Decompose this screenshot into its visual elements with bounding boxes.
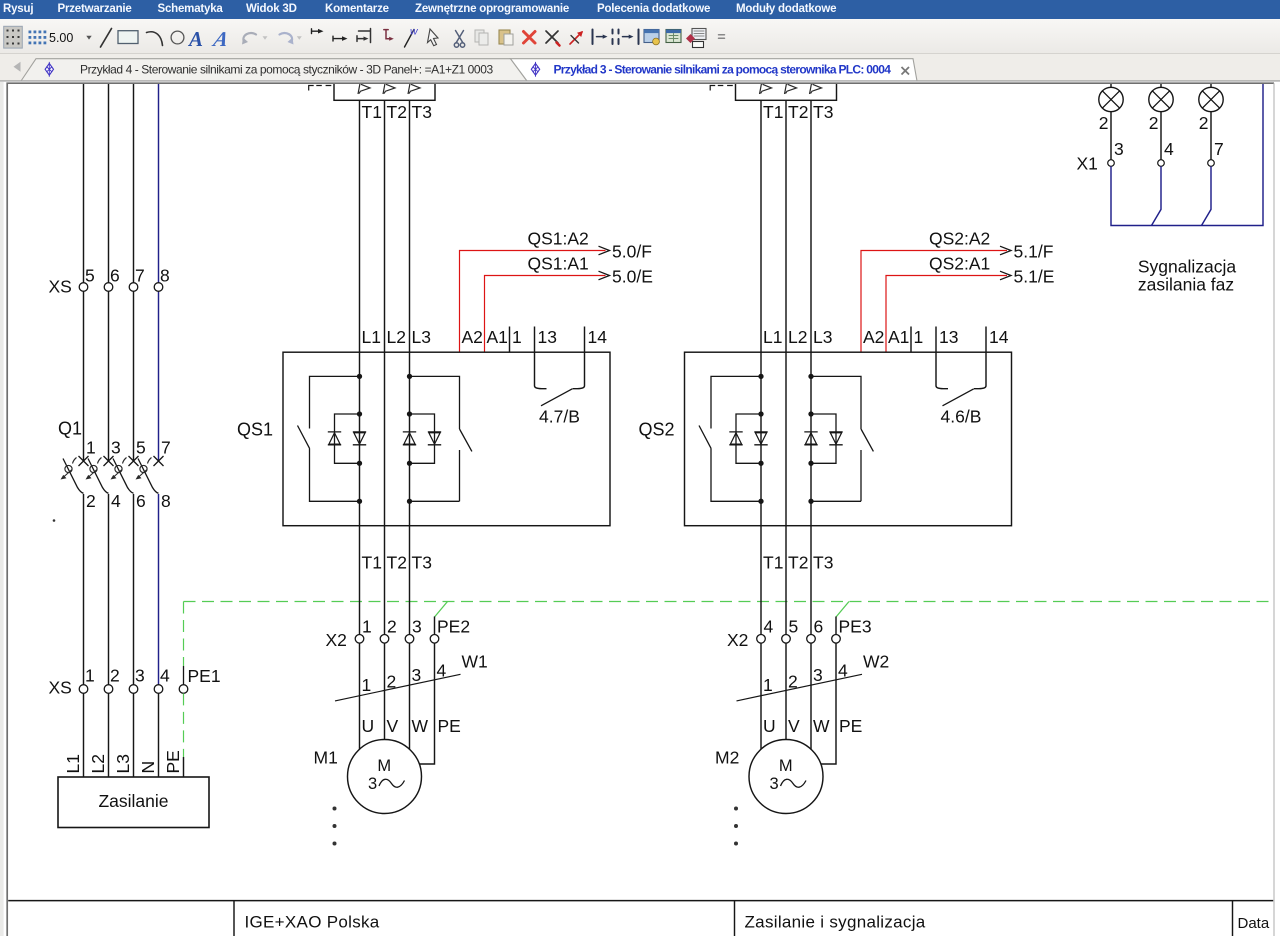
QS1 box <box>283 352 610 526</box>
PE wire (green dashed) vertical to PE1 <box>183 602 185 667</box>
PE bus (green dashed horizontal) <box>184 601 1273 603</box>
svg-text:T3: T3 <box>813 553 833 573</box>
mechanical linkage dashes <box>710 86 733 91</box>
svg-text:5: 5 <box>85 266 95 286</box>
thyristor up (main) <box>403 432 416 445</box>
svg-text:T3: T3 <box>813 102 833 122</box>
wire L2 feeder <box>108 84 110 461</box>
svg-text:L3: L3 <box>412 327 431 347</box>
overload relay box above QS2 <box>736 70 837 100</box>
menu bar <box>0 0 1280 19</box>
overflow chevron <box>719 35 725 38</box>
circle tool <box>171 31 184 44</box>
svg-text:13: 13 <box>939 327 958 347</box>
rectangle tool <box>118 31 138 44</box>
toolbar <box>0 19 1280 54</box>
continuation dots <box>734 807 738 811</box>
svg-text:2: 2 <box>1199 113 1209 133</box>
PE wire to motor <box>419 643 435 764</box>
svg-text:U: U <box>362 716 375 736</box>
Q1 trip release symbol pole 7 <box>140 465 147 472</box>
terminal X1:7 <box>1208 160 1215 167</box>
tab1 scheme icon <box>45 62 53 77</box>
svg-text:4.7/B: 4.7/B <box>539 407 580 427</box>
svg-text:13: 13 <box>538 327 557 347</box>
svg-text:PE1: PE1 <box>188 666 221 686</box>
svg-text:L2: L2 <box>88 754 108 773</box>
PE stub from green bus <box>435 602 448 618</box>
overload release symbol I> <box>785 84 787 95</box>
PE stub from green bus <box>836 602 849 618</box>
svg-text:1: 1 <box>362 616 372 636</box>
wire L1 feeder <box>83 84 85 461</box>
thyristor down (main) <box>353 432 366 445</box>
svg-text:8: 8 <box>160 266 170 286</box>
svg-text:w: w <box>410 26 419 38</box>
signal lamp (pin 3) <box>1110 84 1112 88</box>
lamp wiring (navy) <box>1111 84 1263 226</box>
svg-text:3: 3 <box>412 665 422 685</box>
wire T1 vertical <box>760 100 762 751</box>
svg-text:U: U <box>763 716 776 736</box>
svg-text:X2: X2 <box>727 630 748 650</box>
wire T2 vertical <box>384 100 386 742</box>
svg-text:4.6/B: 4.6/B <box>941 407 982 427</box>
svg-text:X1: X1 <box>1077 154 1098 174</box>
svg-text:2: 2 <box>86 491 96 511</box>
wire T3 vertical <box>409 100 411 751</box>
grid button pressed <box>4 26 23 48</box>
svg-text:A: A <box>209 27 231 51</box>
svg-text:1: 1 <box>512 327 522 347</box>
elbow connector icon <box>384 30 391 39</box>
svg-text:8: 8 <box>161 491 171 511</box>
svg-text:3: 3 <box>813 665 823 685</box>
svg-text:3: 3 <box>770 775 779 793</box>
svg-text:14: 14 <box>989 327 1009 347</box>
svg-text:Zasilanie: Zasilanie <box>98 791 168 811</box>
tabbar bottom edge <box>0 80 1280 82</box>
svg-text:L1: L1 <box>63 754 83 773</box>
svg-text:Q1: Q1 <box>58 419 82 439</box>
svg-text:L2: L2 <box>387 327 406 347</box>
Q1 trip release symbol pole 1 <box>65 465 72 472</box>
svg-text:A: A <box>187 27 203 51</box>
QS2 box <box>685 352 1012 526</box>
coil cross-reference QS2:A2 <box>861 251 1007 353</box>
svg-text:T1: T1 <box>362 553 382 573</box>
svg-text:3: 3 <box>111 438 121 458</box>
inactive tab <box>21 59 527 81</box>
svg-text:2: 2 <box>110 666 120 686</box>
svg-text:QS2:A2: QS2:A2 <box>929 229 990 249</box>
wire T3 vertical <box>810 100 812 751</box>
svg-text:T2: T2 <box>387 102 407 122</box>
svg-text:PE: PE <box>839 716 862 736</box>
svg-text:T3: T3 <box>412 102 432 122</box>
scroll left arrow <box>14 62 21 72</box>
wire N feeder (blue) <box>158 84 160 461</box>
svg-text:2: 2 <box>387 616 397 636</box>
supply box Zasilanie <box>58 777 209 828</box>
copy grayed <box>475 30 484 42</box>
svg-text:M1: M1 <box>314 747 338 767</box>
stretch icon <box>357 29 371 43</box>
overload release symbol I> <box>383 84 385 95</box>
svg-text:3: 3 <box>1114 139 1124 159</box>
svg-text:4: 4 <box>111 491 121 511</box>
tab2 scheme icon <box>531 62 539 77</box>
svg-text:M: M <box>779 757 793 775</box>
wire L3 feeder <box>133 84 135 461</box>
tab close x <box>902 67 910 75</box>
tab bar <box>0 54 1280 81</box>
svg-text:1: 1 <box>362 675 372 695</box>
svg-text:6: 6 <box>110 266 120 286</box>
svg-text:XS: XS <box>49 277 72 297</box>
undo grayed <box>243 33 256 42</box>
thyristor up (branch) <box>328 432 341 445</box>
svg-text:QS1:A1: QS1:A1 <box>528 254 589 274</box>
svg-text:3: 3 <box>135 666 145 686</box>
thyristor up (main) <box>804 432 817 445</box>
svg-text:5.0/E: 5.0/E <box>612 267 653 287</box>
erase X <box>546 31 558 43</box>
redo grayed <box>280 33 293 42</box>
move-right icon (high) <box>312 29 322 34</box>
svg-text:W2: W2 <box>863 652 889 672</box>
svg-text:M2: M2 <box>715 747 739 767</box>
scissors <box>454 31 464 48</box>
coil cross-reference QS1:A1 <box>485 276 606 353</box>
terminal stub 1 <box>509 327 511 353</box>
svg-text:T1: T1 <box>763 102 783 122</box>
svg-text:4: 4 <box>1164 139 1174 159</box>
coil cross-reference QS2:A1 <box>886 276 1007 353</box>
overload release symbol I> <box>760 84 762 95</box>
svg-text:L2: L2 <box>788 327 807 347</box>
signal lamp (pin 4) <box>1160 84 1162 88</box>
overload release symbol I> <box>408 84 410 95</box>
svg-text:3: 3 <box>412 616 422 636</box>
overload release symbol I> <box>358 84 360 95</box>
paste <box>499 30 510 44</box>
svg-text:QS2: QS2 <box>639 420 675 440</box>
active tab <box>511 59 918 81</box>
svg-text:T1: T1 <box>763 553 783 573</box>
svg-text:V: V <box>788 716 800 736</box>
svg-text:M: M <box>377 757 391 775</box>
mechanical linkage dashes <box>309 86 332 91</box>
svg-text:Przykład 4 - Sterowanie silnik: Przykład 4 - Sterowanie silnikami za pom… <box>80 62 493 76</box>
svg-text:T2: T2 <box>788 553 808 573</box>
symbol db icon <box>692 29 706 40</box>
svg-text:A1: A1 <box>888 327 909 347</box>
svg-text:Data: Data <box>1238 915 1270 932</box>
svg-text:T3: T3 <box>412 553 432 573</box>
measure arrow <box>570 32 582 44</box>
svg-text:4: 4 <box>160 666 170 686</box>
svg-text:PE3: PE3 <box>839 616 872 636</box>
svg-text:PE: PE <box>438 716 461 736</box>
svg-text:1: 1 <box>85 666 95 686</box>
svg-text:XS: XS <box>49 678 72 698</box>
svg-text:L1: L1 <box>763 327 782 347</box>
Q1 trip release symbol pole 5 <box>115 465 122 472</box>
svg-text:5.1/F: 5.1/F <box>1014 242 1054 262</box>
svg-text:14: 14 <box>588 327 608 347</box>
svg-text:Zasilanie i sygnalizacja: Zasilanie i sygnalizacja <box>745 913 926 932</box>
QS2 pole B (thyristors + bypass) <box>808 374 813 379</box>
overload relay box above QS1 <box>334 70 435 100</box>
svg-text:V: V <box>387 716 399 736</box>
svg-text:6: 6 <box>814 616 824 636</box>
svg-text:IGE+XAO Polska: IGE+XAO Polska <box>245 913 380 932</box>
svg-text:Przykład 3 - Sterowanie silnik: Przykład 3 - Sterowanie silnikami za pom… <box>554 62 892 76</box>
svg-text:2: 2 <box>1099 113 1109 133</box>
svg-text:4: 4 <box>437 660 447 680</box>
svg-text:PE2: PE2 <box>437 616 470 636</box>
title block frame <box>7 901 1274 936</box>
window icon blue <box>644 30 659 43</box>
svg-text:QS2:A1: QS2:A1 <box>929 254 990 274</box>
svg-text:A1: A1 <box>487 327 508 347</box>
thyristor down (main) <box>754 432 767 445</box>
PE wire to motor <box>820 643 836 764</box>
svg-text:1: 1 <box>763 675 773 695</box>
terminal X1:3 <box>1108 160 1115 167</box>
align prev icon <box>618 30 620 45</box>
svg-text:7: 7 <box>161 438 171 458</box>
svg-text:7: 7 <box>135 266 145 286</box>
svg-text:zasilania faz: zasilania faz <box>1138 275 1234 295</box>
thyristor down (branch) <box>428 432 441 445</box>
align next icon <box>592 30 594 45</box>
QS2 pole A (thyristors + bypass) <box>758 374 763 379</box>
svg-text:A2: A2 <box>462 327 483 347</box>
svg-text:3: 3 <box>368 775 377 793</box>
svg-text:T2: T2 <box>387 553 407 573</box>
terminal X1:4 <box>1158 160 1165 167</box>
svg-text:5: 5 <box>789 616 799 636</box>
terminal stub 1 <box>910 327 912 353</box>
svg-text:L1: L1 <box>362 327 381 347</box>
svg-text:4: 4 <box>764 616 774 636</box>
line tool <box>101 29 112 48</box>
cable W1 <box>335 674 461 701</box>
svg-text:1: 1 <box>914 327 924 347</box>
svg-text:5: 5 <box>136 438 146 458</box>
coil cross-reference QS1:A2 <box>460 251 606 353</box>
thyristor up (branch) <box>729 432 742 445</box>
W pen icon <box>405 30 415 48</box>
svg-text:W: W <box>412 716 429 736</box>
svg-text:L3: L3 <box>813 327 832 347</box>
svg-text:4: 4 <box>838 660 848 680</box>
cable W2 <box>737 674 863 701</box>
QS1 pole A (thyristors + bypass) <box>357 374 362 379</box>
svg-text:T1: T1 <box>362 102 382 122</box>
svg-text:5.00: 5.00 <box>49 31 73 45</box>
overload release symbol I> <box>810 84 812 95</box>
svg-text:5.0/F: 5.0/F <box>612 242 652 262</box>
svg-text:A2: A2 <box>863 327 884 347</box>
svg-text:T2: T2 <box>788 102 808 122</box>
svg-text:7: 7 <box>1214 139 1224 159</box>
svg-text:X2: X2 <box>326 630 347 650</box>
Q1 trip release symbol pole 3 <box>90 465 97 472</box>
blue grid icon <box>29 31 47 45</box>
window icon grid <box>666 30 681 43</box>
wire T1 vertical <box>359 100 361 751</box>
signal lamp (pin 7) <box>1210 84 1212 88</box>
svg-text:PE: PE <box>163 750 183 773</box>
thyristor down (branch) <box>829 432 842 445</box>
svg-text:2: 2 <box>1149 113 1159 133</box>
stray dot <box>53 519 56 522</box>
wire T2 vertical <box>785 100 787 742</box>
svg-text:5.1/E: 5.1/E <box>1014 267 1055 287</box>
svg-text:Sygnalizacja: Sygnalizacja <box>1138 257 1237 277</box>
svg-text:L3: L3 <box>113 754 133 773</box>
svg-text:W1: W1 <box>462 652 488 672</box>
svg-text:W: W <box>813 716 830 736</box>
svg-text:QS1:A2: QS1:A2 <box>528 229 589 249</box>
QS1 pole B (thyristors + bypass) <box>407 374 412 379</box>
svg-text:6: 6 <box>136 491 146 511</box>
svg-text:1: 1 <box>86 438 96 458</box>
delete red X <box>524 32 536 44</box>
svg-text:N: N <box>138 761 158 774</box>
continuation dots <box>333 807 337 811</box>
svg-text:QS1: QS1 <box>237 420 273 440</box>
svg-text:2: 2 <box>788 671 798 691</box>
cursor icon <box>428 29 439 46</box>
arc tool <box>147 32 163 46</box>
move-right icon (low) <box>333 36 345 41</box>
svg-text:2: 2 <box>387 671 397 691</box>
